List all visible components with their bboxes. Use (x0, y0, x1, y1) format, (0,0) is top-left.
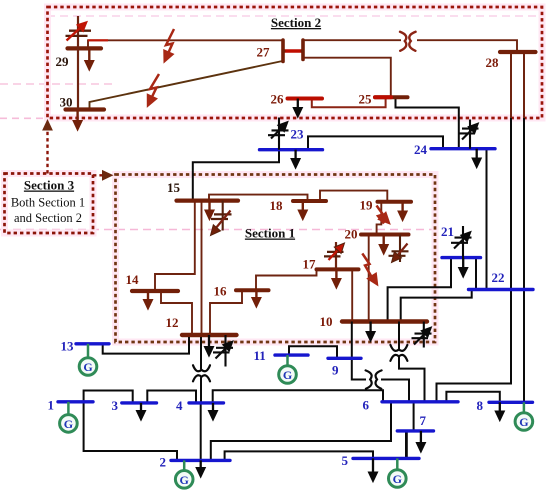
wire 27-28 (right of transformer) and drop to 28 (417, 40, 517, 52)
generator stub bus 1 (67, 402, 70, 416)
load arrow bus 18 (298, 201, 307, 220)
wire 25-24 (black) (396, 97, 459, 148)
svg-text:23: 23 (291, 127, 305, 142)
bus 27 right bar (301, 40, 305, 60)
wire 10-6 lower part (399, 357, 425, 402)
bus 12 (182, 333, 237, 337)
shunt SVC bus 15 (207, 201, 232, 239)
bus 5 (353, 457, 419, 460)
Section 3 dashed label box (5, 174, 94, 234)
wire 1-3 (84, 391, 133, 403)
transformer 27-28 (400, 32, 416, 51)
transformer 12-4 (wavy) (193, 365, 210, 381)
svg-text:3: 3 (112, 398, 119, 413)
svg-text:11: 11 (254, 348, 266, 363)
load arrow bus 8 (495, 402, 504, 421)
bus 22 (469, 288, 534, 291)
svg-text:2: 2 (160, 455, 167, 470)
wire 28-8 black part (523, 118, 525, 402)
shunt SVC bus 12 (black) (213, 335, 236, 367)
svg-text:29: 29 (56, 54, 70, 69)
wire 21-10 (388, 258, 451, 322)
svg-text:5: 5 (342, 453, 349, 468)
bus 8 (489, 401, 533, 404)
load arrow bus 17 (332, 269, 341, 288)
wire 22-10 (401, 290, 472, 322)
halo glow section2 (48, 7, 543, 118)
load arrow bus 14 (143, 291, 152, 310)
bus 28 (500, 50, 536, 54)
shunt SVC bus 10 (black) (412, 322, 435, 348)
svg-text:Section 3: Section 3 (24, 178, 75, 193)
load arrow bus 7 (416, 431, 425, 453)
svg-text:27: 27 (257, 45, 271, 60)
load arrow bus 2 (196, 460, 205, 477)
wire 3-4 (147, 391, 196, 403)
bus 16 (236, 288, 269, 292)
lightning fault on line 20-10 (362, 253, 382, 288)
wire 26-25 link (312, 97, 386, 107)
wire 28-6 upper maroon part (510, 52, 512, 118)
wire 9-10 (351, 322, 353, 359)
load arrow bus 29 (85, 48, 94, 70)
wire 5-7 (405, 431, 408, 459)
svg-text:G: G (180, 473, 189, 487)
bus 15 (177, 199, 239, 203)
wire 13-12 (103, 337, 189, 354)
halo glow section3 (5, 174, 94, 234)
wire 15-18 (209, 195, 308, 201)
load arrow bus 16 (252, 290, 261, 307)
wire 23-15 (black) (193, 150, 279, 201)
load arrow bus 26 (black) (293, 99, 302, 118)
wire 4-6 (213, 390, 383, 403)
load arrow bus 30 (73, 110, 82, 131)
wire 28-8 upper maroon part (523, 52, 525, 118)
bus 29 (68, 46, 102, 50)
generator G bus 13 (79, 358, 97, 376)
ghost pink dashed line left of section2 bottom (0, 117, 46, 119)
bus 19 (378, 200, 412, 204)
svg-text:13: 13 (61, 339, 75, 354)
wire 24-22 (486, 149, 488, 290)
wire 30-27 diagonal (90, 61, 283, 110)
svg-text:4: 4 (176, 398, 183, 413)
wire 12-4 upper part (200, 337, 202, 369)
wire 16-17 (256, 269, 317, 290)
transformer 6-10 (wavy) (390, 345, 407, 361)
svg-text:12: 12 (166, 315, 179, 330)
svg-text:15: 15 (167, 180, 181, 195)
svg-text:G: G (393, 472, 402, 486)
wire 29-27 red segment near bus 29 (88, 39, 108, 41)
load arrow bus 23 (291, 150, 300, 169)
generator stub bus 13 (87, 344, 90, 358)
ghost pink dashed line top (47, 15, 542, 17)
bus 30 (66, 107, 105, 111)
svg-text:G: G (519, 415, 528, 429)
svg-text:28: 28 (486, 55, 500, 70)
wire 20-10 (368, 235, 370, 322)
ghost pink dashed line y84 (0, 83, 112, 85)
bus 2 (171, 459, 230, 462)
svg-text:1: 1 (48, 398, 55, 413)
svg-text:26: 26 (271, 92, 285, 107)
svg-text:G: G (283, 368, 292, 382)
lightning fault on line 30-27 (142, 74, 159, 109)
svg-text:20: 20 (345, 227, 358, 242)
shunt SVC bus 17 (324, 240, 348, 270)
bus 27 left bar (281, 40, 285, 62)
shunt SVC bus 29 (66, 16, 92, 48)
wire riser 29-30 (77, 48, 79, 109)
bus 25 (375, 95, 408, 99)
bus 26 (red) (288, 97, 323, 101)
svg-text:17: 17 (303, 257, 317, 272)
bus 11 (275, 353, 308, 356)
transformer 6-9 (366, 370, 382, 388)
wire 2-6 (211, 402, 391, 461)
wire 14-12 (161, 291, 192, 335)
bus 21 (442, 256, 481, 259)
wire 15-12 (201, 201, 203, 335)
wire 12-4 lower part (200, 377, 202, 403)
generator stub bus 2 (183, 460, 186, 469)
bus 13 (76, 342, 109, 345)
Section 2 dashed box (48, 7, 543, 118)
wire 2-5 (225, 451, 373, 460)
load arrow bus 3 (136, 403, 145, 421)
wire 23-24 (black) (308, 136, 443, 149)
bus 6 (382, 400, 458, 403)
bus 25 red left half (375, 95, 391, 99)
svg-text:19: 19 (360, 198, 374, 213)
svg-text:24: 24 (414, 142, 428, 157)
generator stub bus 8 (523, 402, 526, 413)
wire 6-7 (413, 402, 415, 431)
generator G bus 8 (515, 413, 533, 431)
svg-text:G: G (64, 417, 73, 431)
lightning fault on line 29-27 (159, 29, 174, 65)
bus 20 (361, 233, 409, 237)
bus 27 red coupler link (282, 49, 305, 53)
svg-text:30: 30 (60, 95, 73, 110)
svg-text:7: 7 (420, 413, 427, 428)
svg-text:Section 1: Section 1 (245, 226, 295, 241)
shunt SVC bus 20 (388, 235, 409, 266)
bus 7 (397, 429, 433, 432)
wire 1-2 (84, 402, 177, 461)
svg-text:21: 21 (441, 224, 454, 239)
bus 10 (342, 319, 427, 323)
generator G bus 11 (279, 366, 297, 384)
wire 21-22 (475, 258, 477, 290)
svg-text:Both Section 1: Both Section 1 (11, 196, 85, 210)
generator G bus 5 (389, 470, 407, 488)
load arrow bus 12 (black) (204, 335, 213, 357)
Section 1 dashed box (116, 175, 436, 343)
wire 27-28 (left of transformer) (303, 39, 401, 41)
bus 17 (317, 267, 359, 271)
dashed arrow section3 to section1 (93, 170, 114, 181)
load arrow bus 5 (368, 458, 377, 482)
lightning fault on line 19-20 (377, 206, 394, 228)
shunt SVC bus 24 (459, 120, 482, 149)
load arrow bus 15 (205, 201, 214, 220)
svg-text:14: 14 (126, 272, 140, 287)
bus 14 (132, 289, 178, 293)
shunt SVC bus 23 (268, 118, 291, 150)
load arrow bus 20 (379, 235, 388, 255)
bus 9 (328, 357, 361, 360)
load arrow bus 24 (472, 149, 481, 168)
load arrow bus 19 (398, 202, 407, 221)
svg-text:18: 18 (270, 198, 284, 213)
wire 27-25 (303, 58, 391, 98)
svg-text:8: 8 (477, 398, 484, 413)
bus 18 (293, 199, 326, 203)
svg-text:10: 10 (320, 314, 333, 329)
bus 4 (189, 401, 224, 404)
bus 24 (431, 147, 495, 150)
generator G bus 1 (60, 415, 78, 433)
load arrow bus 4 (208, 403, 217, 421)
wire 19-20 (377, 202, 382, 235)
load arrow bus 21 (459, 258, 468, 278)
wire 29-27 (88, 40, 283, 48)
generator stub bus 11 (286, 355, 289, 365)
dashed arrow section3 to section2 (42, 119, 53, 174)
bus 1 (58, 400, 93, 403)
shunt SVC bus 21 (451, 226, 474, 258)
load arrow bus 10 (black) (366, 322, 375, 342)
wire 16-12 (210, 290, 242, 335)
wire 17-10 (351, 269, 353, 321)
ghost pink dashed line mid (0, 229, 433, 231)
wire 18-19 (320, 191, 387, 202)
halo glow section1 (116, 175, 436, 343)
wire 4-2 (200, 403, 202, 461)
wire 11-9 (289, 346, 337, 358)
wire 10-6 upper part (398, 322, 400, 350)
svg-text:Section 2: Section 2 (271, 15, 321, 30)
wire 15-14 (155, 201, 195, 291)
wire 28-6 black part (437, 118, 512, 402)
generator stub bus 5 (396, 458, 399, 469)
svg-text:9: 9 (332, 363, 339, 378)
generator G bus 2 (175, 471, 193, 489)
svg-text:6: 6 (363, 398, 370, 413)
svg-text:22: 22 (492, 270, 505, 285)
wire 6-8 (446, 392, 499, 403)
wire 9-6 with gap for transformer (352, 358, 366, 379)
svg-text:and Section 2: and Section 2 (14, 211, 82, 225)
svg-text:G: G (83, 360, 92, 374)
svg-text:25: 25 (359, 92, 373, 107)
bus 3 (122, 401, 157, 404)
bus 23 (260, 148, 323, 151)
svg-text:16: 16 (214, 284, 228, 299)
